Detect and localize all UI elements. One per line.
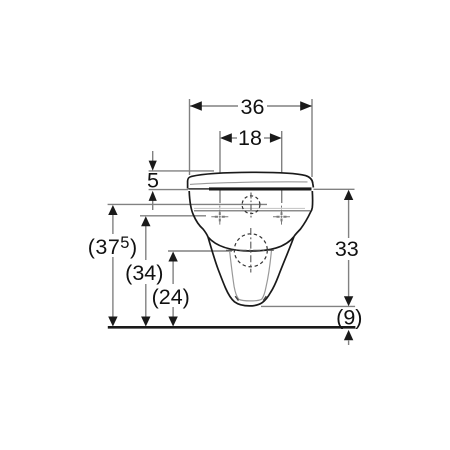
svg-text:33: 33 [335, 237, 359, 261]
svg-text:(9): (9) [336, 305, 362, 329]
svg-text:36: 36 [241, 95, 265, 119]
svg-text:(24): (24) [152, 285, 190, 309]
svg-text:(34): (34) [125, 261, 163, 285]
svg-text:18: 18 [238, 126, 262, 150]
svg-text:5: 5 [147, 169, 159, 193]
svg-text:(375): (375) [88, 234, 138, 259]
